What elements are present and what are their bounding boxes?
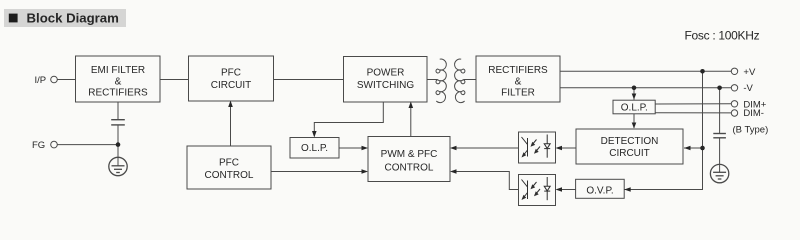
- arrow left into PWM (from opto1): [450, 146, 457, 151]
- terminal FG: [51, 141, 58, 148]
- svg-text:&: &: [115, 76, 122, 87]
- arrow up into PFC CIRCUIT: [228, 101, 233, 108]
- arrowheads: [228, 94, 690, 192]
- wire FG to junction: [57, 144, 118, 146]
- svg-text:SWITCHING: SWITCHING: [357, 80, 414, 91]
- wire PFC CIRCUIT to POWER SWITCHING: [274, 79, 344, 81]
- wire I/P to EMI box: [57, 79, 75, 81]
- block PFC CONTROL: [187, 146, 271, 189]
- arrow left into DETECTION right: [684, 146, 691, 151]
- terminal DIM-: [731, 110, 737, 116]
- svg-text:FILTER: FILTER: [501, 88, 535, 99]
- svg-text:CONTROL: CONTROL: [205, 170, 254, 181]
- svg-text:O.L.P.: O.L.P.: [301, 143, 328, 154]
- wire bus to DETECTION CIRCUIT right: [684, 147, 703, 149]
- wire POWER SWITCHING down to O.L.P.: [314, 102, 383, 133]
- wire +V bus down: [624, 71, 702, 189]
- svg-text:CONTROL: CONTROL: [385, 162, 434, 173]
- wire capacitor to output earth ground: [719, 138, 721, 164]
- wire EMI to PFC CIRCUIT: [160, 79, 189, 81]
- arrow left into opto1 (from DETECTION): [556, 146, 563, 151]
- junction +V / bus: [700, 69, 705, 74]
- svg-text:POWER: POWER: [367, 68, 405, 79]
- earth ground (input): [109, 157, 127, 175]
- block PFC CIRCUIT: [189, 56, 274, 101]
- wire EMI down to capacitor: [117, 102, 119, 119]
- block RECTIFIERS & FILTER: [476, 56, 560, 102]
- header bar: [4, 9, 126, 27]
- arrow right into PWM (from OLP): [362, 146, 369, 151]
- block PWM & PFC CONTROL: [368, 137, 450, 182]
- svg-text:PWM & PFC: PWM & PFC: [381, 149, 438, 160]
- capacitor C-out: [713, 133, 726, 135]
- arrow left into opto2 (from OVP): [556, 187, 563, 192]
- svg-text:+V: +V: [743, 67, 756, 78]
- wire DIM+: [655, 103, 731, 105]
- wire O.L.P. down to DETECTION CIRCUIT: [633, 114, 635, 128]
- svg-text:DETECTION: DETECTION: [601, 136, 659, 147]
- optocoupler U2 internals: [522, 177, 551, 200]
- block POWER SWITCHING: [344, 57, 428, 103]
- terminal -V: [731, 85, 737, 91]
- wire optocoupler1 to PWM: [455, 147, 519, 149]
- wire +V rail: [560, 70, 731, 72]
- wire -V rail: [560, 87, 731, 89]
- optocoupler U1 box: [519, 132, 556, 163]
- svg-text:FG: FG: [32, 140, 45, 151]
- block DETECTION CIRCUIT: [576, 129, 683, 164]
- svg-text:O.L.P.: O.L.P.: [621, 103, 648, 114]
- junction FG/cap: [116, 142, 121, 147]
- wire optocoupler2 to PWM: [455, 172, 519, 190]
- junction -V / OLP tap: [632, 86, 637, 91]
- arrow down into O.L.P. primary: [312, 131, 317, 138]
- svg-text:-V: -V: [743, 83, 753, 94]
- transformer secondary winding: [455, 59, 465, 103]
- block O.L.P. (primary): [290, 138, 339, 159]
- svg-text:&: &: [515, 76, 522, 87]
- junction bus / detection: [700, 146, 705, 151]
- wire PFC CONTROL up to PFC CIRCUIT: [230, 106, 232, 146]
- wire DETECTION to optocoupler1: [560, 147, 576, 149]
- transformer primary winding: [436, 59, 446, 103]
- optocoupler U1 internals: [522, 135, 551, 158]
- wire -V bus down to capacitor: [719, 88, 721, 133]
- junction -V / cap bus: [717, 86, 722, 91]
- svg-text:RECTIFIERS: RECTIFIERS: [488, 65, 548, 76]
- svg-text:Fosc : 100KHz: Fosc : 100KHz: [685, 29, 760, 43]
- svg-text:PFC: PFC: [219, 158, 239, 169]
- svg-text:EMI FILTER: EMI FILTER: [91, 65, 145, 76]
- block O.L.P. (secondary): [613, 100, 655, 114]
- svg-text:RECTIFIERS: RECTIFIERS: [88, 88, 148, 99]
- wire capacitor to FG junction: [117, 125, 119, 144]
- earth ground (output): [710, 164, 728, 182]
- svg-text:PFC: PFC: [221, 67, 241, 78]
- arrow left into PWM (from opto2): [450, 169, 457, 174]
- wire PWM up to POWER SWITCHING: [410, 107, 412, 137]
- arrow down into OLP secondary: [632, 94, 637, 100]
- arrow down into DETECTION top: [632, 123, 637, 129]
- wire junction down to earth ground: [117, 145, 119, 158]
- wire transformer secondary to RECTIFIERS & FILTER: [464, 79, 477, 81]
- svg-text:(B Type): (B Type): [733, 124, 769, 135]
- terminal DIM+: [731, 101, 737, 107]
- capacitor (input filter): [111, 119, 125, 121]
- terminal +V: [731, 68, 737, 74]
- optocoupler U2 box: [519, 175, 556, 206]
- header bullet square: [9, 14, 18, 23]
- arrow right into PWM (from PFC CONTROL): [362, 169, 369, 174]
- wire DIM-: [655, 112, 731, 114]
- wire O.L.P. to PWM & PFC CONTROL: [339, 147, 363, 149]
- block O.V.P.: [576, 179, 625, 198]
- terminal I/P: [51, 76, 58, 83]
- wire O.V.P. to optocoupler2: [560, 189, 576, 191]
- wire PFC CONTROL to PWM & PFC CONTROL: [271, 171, 363, 173]
- arrow up into POWER SWITCHING: [409, 102, 414, 109]
- svg-text:CIRCUIT: CIRCUIT: [211, 80, 252, 91]
- wire POWER SWITCHING to transformer primary: [427, 79, 438, 81]
- svg-text:O.V.P.: O.V.P.: [586, 185, 613, 196]
- wire -V tap down to O.L.P.: [633, 88, 635, 100]
- arrow left into OVP right: [624, 187, 631, 192]
- svg-text:Block Diagram: Block Diagram: [27, 11, 119, 26]
- block EMI FILTER & RECTIFIERS: [76, 56, 161, 102]
- svg-text:DIM-: DIM-: [743, 108, 764, 119]
- svg-text:CIRCUIT: CIRCUIT: [609, 148, 650, 159]
- svg-text:I/P: I/P: [35, 75, 47, 86]
